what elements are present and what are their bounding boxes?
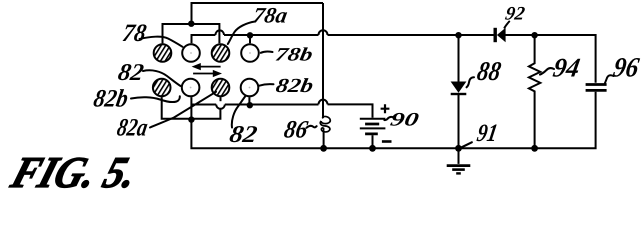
svg-text:94: 94 xyxy=(551,53,582,83)
svg-text:82b: 82b xyxy=(274,75,315,97)
svg-text:91: 91 xyxy=(475,120,500,147)
svg-text:82a: 82a xyxy=(115,115,150,142)
svg-text:FIG. 5.: FIG. 5. xyxy=(5,148,144,192)
svg-text:96: 96 xyxy=(611,53,641,84)
svg-text:90: 90 xyxy=(389,110,421,131)
svg-text:82: 82 xyxy=(227,122,259,148)
svg-text:78a: 78a xyxy=(251,3,289,28)
svg-text:88: 88 xyxy=(475,56,504,86)
svg-text:92: 92 xyxy=(504,4,527,25)
svg-text:78b: 78b xyxy=(274,45,315,66)
svg-text:82b: 82b xyxy=(91,86,130,113)
svg-text:86: 86 xyxy=(282,117,310,144)
svg-text:78: 78 xyxy=(120,20,148,47)
svg-text:82: 82 xyxy=(116,60,146,86)
